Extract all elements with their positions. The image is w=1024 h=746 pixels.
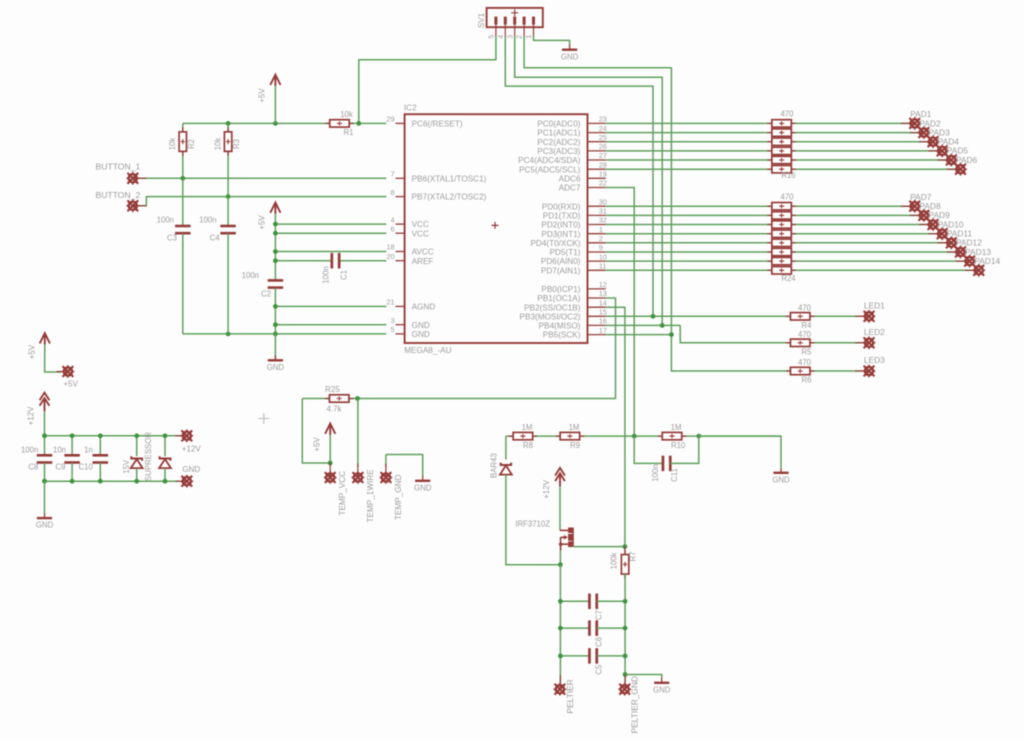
svg-text:MEGA8_-AU: MEGA8_-AU (404, 346, 451, 355)
IC2 pin 21 AGND (396, 305, 405, 307)
svg-text:1M: 1M (671, 423, 682, 432)
svg-text:100n: 100n (199, 215, 216, 224)
pad PAD2 (910, 132, 924, 134)
resistor R2 10k (182, 123, 184, 178)
wire MOSFET gate to R7 node (573, 546, 625, 548)
svg-text:IRF3710Z: IRF3710Z (515, 520, 550, 529)
resistor R16.5 470 (767, 159, 795, 161)
wire SV1 pin1 to GND (534, 37, 570, 46)
wire BAR43 to PELTIER node (506, 475, 561, 565)
svg-text:PD3(INT1): PD3(INT1) (541, 230, 580, 239)
svg-text:1n: 1n (84, 445, 93, 454)
svg-text:C4: C4 (210, 233, 221, 242)
node R3 top junction (226, 121, 231, 126)
IC2 pin 24 PC1(ADC1) (588, 132, 606, 134)
node R10 right junction (696, 434, 701, 439)
svg-text:11: 11 (599, 262, 607, 271)
wire ADC7 down to divider (606, 188, 634, 437)
wire R7 down to PELTIER_GND node (624, 574, 626, 683)
svg-text:1M: 1M (569, 423, 580, 432)
IC2 pin 11 PD7(AIN1) (588, 269, 606, 271)
svg-text:R24: R24 (781, 274, 796, 283)
capacitor C6 across peltier (560, 627, 589, 629)
svg-text:17: 17 (599, 326, 607, 335)
power +5V arrow upper (270, 75, 280, 87)
svg-text:C1: C1 (339, 270, 348, 280)
svg-text:R1: R1 (344, 128, 354, 137)
svg-text:R8: R8 (523, 441, 533, 450)
wire R10 to ground (699, 436, 781, 468)
svg-text:C7: C7 (595, 610, 604, 620)
svg-text:R16: R16 (781, 171, 795, 180)
IC2 pin 13 PB1(OC1A) (588, 297, 606, 299)
svg-text:PAD6: PAD6 (956, 155, 978, 165)
node R1 right junction (356, 121, 361, 126)
sheet origin cross (258, 413, 269, 424)
wire R25 left to TEMP_VCC (302, 399, 330, 464)
resistor R8 1M (509, 435, 537, 437)
IC2 pin 26 PC3(ADC3) (588, 150, 606, 152)
svg-text:1: 1 (524, 35, 533, 39)
svg-text:R7: R7 (629, 552, 638, 562)
wire R8 left to BAR43 (505, 436, 507, 459)
IC2 pin 17 PB5(SCK) (588, 334, 606, 336)
svg-text:LED3: LED3 (864, 355, 885, 365)
svg-text:26: 26 (599, 142, 607, 151)
svg-text:BUTTON_1: BUTTON_1 (96, 162, 141, 172)
IC2 pin 32 PD2(INT0) (588, 224, 606, 226)
wire PD7(AIN1) to PAD14 (606, 269, 979, 271)
svg-text:PD7(AIN1): PD7(AIN1) (541, 266, 581, 275)
node R3 bottom junction (226, 194, 231, 199)
pad +5V (57, 371, 68, 373)
svg-text:+5V: +5V (312, 437, 321, 452)
node gate junction (623, 544, 628, 549)
svg-text:C8: C8 (28, 463, 38, 472)
wire SV1 pin5 to R1/RESET node (359, 37, 496, 124)
resistor R6 470 (786, 370, 814, 372)
diode BAR43 (501, 463, 511, 465)
wire PB3 to LED1 (606, 315, 863, 317)
svg-text:28: 28 (599, 160, 607, 169)
svg-text:R25: R25 (325, 385, 340, 394)
svg-text:SUPRESSOR: SUPRESSOR (144, 432, 153, 481)
SV1 pin 3 contact (513, 17, 516, 25)
node SV1pin2/PB5 junction (669, 332, 674, 337)
wire SV1 pin2 to PB5 node (524, 37, 671, 335)
pad PAD7 (901, 205, 915, 207)
svg-text:PD1(TXD): PD1(TXD) (543, 212, 581, 221)
wire divider row R8 R9 R10 (506, 435, 781, 437)
pad PAD11 (937, 242, 951, 244)
IC2 origin cross (492, 222, 499, 229)
svg-text:1M: 1M (522, 423, 533, 432)
resistor R24.3 470 (767, 224, 795, 226)
wire PD6(AIN0) to PAD13 (606, 260, 970, 262)
resistor R24.1 470 (767, 205, 795, 207)
power +12V arrow (40, 393, 50, 412)
IC2 pin 15 PB3(MOSI/OC2) (588, 315, 606, 317)
ground at peltier (661, 678, 663, 683)
svg-text:4: 4 (496, 35, 505, 39)
wire AREF pin20 with C1 (275, 260, 331, 262)
pad PAD6 (947, 168, 961, 170)
svg-text:PAD14: PAD14 (974, 256, 1000, 266)
wire PB2 down to MOSFET gate (606, 307, 625, 546)
resistor R24.6 470 (767, 251, 795, 253)
node peltier gnd junction (623, 672, 628, 677)
svg-text:AVCC: AVCC (412, 248, 434, 257)
svg-text:R5: R5 (802, 347, 813, 356)
node +5V stem junction (273, 121, 278, 126)
svg-text:1: 1 (599, 225, 603, 234)
svg-text:PELTIER_GND: PELTIER_GND (630, 676, 640, 734)
svg-text:C2: C2 (261, 290, 271, 299)
wire SV1 pin4 to PB3 node (505, 37, 653, 317)
pad LED2 (855, 342, 869, 344)
svg-text:2: 2 (515, 35, 524, 39)
wire PD2(INT0) to PAD9 (606, 224, 933, 226)
svg-text:10k: 10k (168, 138, 177, 151)
capacitor C1 100n (331, 253, 334, 269)
resistor R16.6 470 (767, 168, 795, 170)
IC2 pin 18 AVCC (396, 251, 405, 253)
resistor R1 10k (325, 122, 353, 124)
resistor R10 1M (658, 435, 686, 437)
node TEMP_VCC junction (328, 461, 333, 466)
SV1 pin 5 contact (494, 17, 497, 25)
svg-text:27: 27 (599, 151, 607, 160)
svg-text:18: 18 (386, 243, 394, 252)
pad PELTIER_GND (624, 675, 626, 689)
svg-text:PD0(RXD): PD0(RXD) (542, 202, 581, 211)
resistor R7 100k (624, 547, 626, 579)
svg-text:10n: 10n (53, 445, 66, 454)
resistor R5 470 (786, 342, 814, 344)
capacitor C11 100n (634, 436, 663, 463)
svg-text:5: 5 (487, 35, 496, 39)
wire AGND pin21 (275, 305, 386, 307)
svg-text:SV1: SV1 (477, 12, 486, 28)
svg-text:13: 13 (599, 289, 607, 298)
pad PAD8 (910, 214, 924, 216)
connector SV1 body (487, 8, 543, 27)
wire PB5 to LED3 (606, 334, 672, 336)
svg-text:PB4(MISO): PB4(MISO) (539, 322, 581, 331)
svg-text:100n: 100n (157, 215, 174, 224)
pad PAD12 (947, 251, 961, 253)
svg-text:14: 14 (599, 298, 607, 307)
svg-text:+5V: +5V (258, 88, 267, 103)
IC2 pin 9 PD5(T1) (588, 251, 606, 253)
svg-text:10k: 10k (214, 138, 223, 151)
svg-text:470: 470 (798, 358, 812, 367)
resistor R24.7 470 (767, 260, 795, 262)
IC2 pin 10 PD6(AIN0) (588, 260, 606, 262)
svg-text:3: 3 (505, 35, 514, 39)
wire BUTTON_1 to PB6 (133, 177, 386, 179)
wire PC2(ADC2) to PAD3 (606, 141, 933, 143)
svg-text:PB5(SCK): PB5(SCK) (543, 331, 581, 340)
svg-text:470: 470 (798, 303, 812, 312)
wire PD4(T0/XCK) to PAD11 (606, 242, 952, 244)
svg-text:GND: GND (653, 685, 671, 694)
svg-text:LED2: LED2 (864, 327, 885, 337)
pad TEMP_VCC (329, 463, 331, 478)
svg-text:470: 470 (780, 110, 794, 119)
svg-text:AGND: AGND (412, 303, 436, 312)
svg-text:C9: C9 (56, 463, 66, 472)
IC IC2 MEGA8_-AU body (405, 114, 588, 343)
svg-text:R6: R6 (802, 376, 812, 385)
IC2 pin 23 PC0(ADC0) (588, 122, 606, 124)
svg-text:16: 16 (599, 317, 607, 326)
svg-text:GND: GND (412, 321, 430, 330)
svg-text:100n: 100n (242, 271, 259, 280)
svg-text:PD5(T1): PD5(T1) (550, 248, 581, 257)
svg-text:15V: 15V (122, 459, 131, 474)
SV1 origin cross (511, 9, 518, 16)
wire +12V rail (45, 435, 181, 437)
SV1 pin 1 contact (532, 17, 535, 25)
pad PAD9 (919, 224, 933, 226)
svg-text:+5V: +5V (27, 344, 36, 359)
svg-text:C6: C6 (595, 637, 604, 647)
svg-text:100n: 100n (21, 445, 38, 454)
wire PB1 down to R25 1-wire (358, 298, 616, 399)
wire TEMP_GND to ground (386, 455, 423, 477)
IC2 pin 3 GND (396, 324, 405, 326)
svg-text:GND: GND (412, 330, 430, 339)
svg-text:+5V: +5V (63, 380, 78, 389)
pad BUTTON_2 (133, 205, 147, 207)
suppressor diode 15V right (164, 436, 166, 457)
IC2 pin 1 PD3(INT1) (588, 233, 606, 235)
pad PAD3 (919, 141, 933, 143)
svg-text:+12V: +12V (542, 479, 551, 499)
node R2 bottom junction (180, 176, 185, 181)
IC2 pin 4 VCC (396, 223, 405, 225)
IC2 pin 8 PB7(XTAL2/TOSC2) (396, 196, 405, 198)
svg-text:4: 4 (390, 215, 394, 224)
power +5V arrow lower-left (40, 333, 50, 345)
svg-text:20: 20 (386, 252, 394, 261)
ground at TEMP_GND (422, 476, 424, 481)
resistor R16.4 470 (767, 150, 795, 152)
svg-text:R4: R4 (802, 321, 813, 330)
svg-text:TEMP_1WIRE: TEMP_1WIRE (366, 469, 375, 523)
wire PC1(ADC1) to PAD2 (606, 132, 924, 134)
IC2 pin 30 PD0(RXD) (588, 205, 606, 207)
svg-text:AREF: AREF (412, 257, 434, 266)
IC2 pin 19 ADC6 (588, 177, 606, 179)
svg-text:10: 10 (599, 252, 607, 261)
capacitor C10 1n (99, 436, 101, 455)
svg-text:ADC6: ADC6 (559, 174, 581, 183)
SV1 pin 2 contact (523, 17, 526, 25)
svg-text:PB3(MOSI/OC2): PB3(MOSI/OC2) (520, 312, 581, 321)
svg-text:PC4(ADC4/SDA): PC4(ADC4/SDA) (518, 156, 581, 165)
svg-text:VCC: VCC (412, 220, 429, 229)
capacitor C5 across peltier (560, 655, 589, 657)
power +5V arrow at VCC (270, 203, 280, 215)
svg-text:PC1(ADC1): PC1(ADC1) (537, 129, 580, 138)
wire AVCC pin18 (275, 251, 386, 253)
pad LED3 (855, 370, 869, 372)
svg-text:PB6(XTAL1/TOSC1): PB6(XTAL1/TOSC1) (412, 174, 487, 183)
resistor R3 10k (227, 123, 229, 196)
wire PD3(INT1) to PAD10 (606, 233, 942, 235)
pad +12V (175, 435, 186, 437)
svg-text:PELTIER: PELTIER (565, 679, 575, 713)
node ADC7 junction on divider (632, 434, 637, 439)
ground lower-left (44, 513, 46, 518)
IC2 pin 25 PC2(ADC2) (588, 141, 606, 143)
svg-text:PC2(ADC2): PC2(ADC2) (537, 138, 580, 147)
svg-text:22: 22 (599, 179, 607, 188)
resistor R24.8 470 (767, 269, 795, 271)
svg-text:C5: C5 (595, 664, 604, 675)
svg-text:19: 19 (599, 170, 607, 179)
resistor R16.2 470 (767, 132, 795, 134)
node source/BAR43 junction (558, 562, 563, 567)
svg-text:PB0(ICP1): PB0(ICP1) (541, 285, 580, 294)
wire gnd rail lower (45, 480, 181, 482)
IC2 pin 5 GND (396, 333, 405, 335)
svg-text:100n: 100n (651, 464, 660, 481)
svg-text:32: 32 (599, 216, 607, 225)
svg-text:24: 24 (599, 124, 607, 133)
power +12V arrow at MOSFET (555, 468, 565, 487)
node SV1pin4/PB3 junction (651, 314, 656, 319)
capacitor C7 across peltier (560, 600, 589, 602)
pad TEMP_GND (385, 455, 387, 468)
pad PAD10 (928, 233, 942, 235)
pad LED1 (855, 315, 869, 317)
svg-text:12: 12 (599, 280, 607, 289)
suppressor diode 15V left (136, 436, 138, 457)
pad PAD5 (937, 159, 951, 161)
ground at R10 (780, 468, 782, 473)
svg-text:R10: R10 (671, 441, 686, 450)
capacitor C4 100n (227, 197, 229, 226)
svg-text:ADC7: ADC7 (559, 184, 581, 193)
IC2 pin 28 PC5(ADC5/SCL) (588, 168, 606, 170)
svg-text:21: 21 (386, 298, 394, 307)
wire MOSFET source down (559, 551, 561, 565)
svg-text:PC5(ADC5/SCL): PC5(ADC5/SCL) (519, 165, 581, 174)
wire PC3(ADC3) to PAD4 (606, 150, 942, 152)
capacitor C3 100n (182, 178, 184, 226)
svg-text:TEMP_GND: TEMP_GND (394, 474, 403, 520)
svg-text:+5V: +5V (258, 215, 267, 230)
resistor R16.3 470 (767, 141, 795, 143)
IC2 pin 14 PB2(SS/OC1B) (588, 306, 606, 308)
resistor R24.2 470 (767, 214, 795, 216)
ground below C2 (274, 334, 276, 360)
wire BUTTON_2 to PB7 (133, 197, 386, 206)
svg-text:4.7k: 4.7k (326, 404, 342, 413)
svg-text:PC3(ADC3): PC3(ADC3) (537, 147, 580, 156)
pad BUTTON_1 (133, 177, 147, 179)
svg-text:10k: 10k (340, 110, 353, 119)
svg-text:100n: 100n (321, 266, 330, 283)
wire GND pin3 (275, 324, 386, 326)
wire SV1 pin3 to PB4 node (515, 37, 663, 326)
svg-text:470: 470 (780, 192, 794, 201)
svg-text:GND: GND (772, 475, 790, 484)
svg-text:LED1: LED1 (864, 301, 885, 311)
svg-text:C3: C3 (167, 233, 177, 242)
node R25 right junction (355, 396, 360, 401)
SV1 pin 4 contact (504, 17, 507, 25)
wire PC4(ADC4/SDA) to PAD5 (606, 159, 952, 161)
svg-text:PB1(OC1A): PB1(OC1A) (537, 294, 580, 303)
svg-text:+12V: +12V (182, 444, 202, 453)
pad PAD1 (901, 122, 915, 124)
svg-text:PB2(SS/OC1B): PB2(SS/OC1B) (524, 303, 581, 312)
node SV1pin3/PB4 junction (660, 323, 665, 328)
IC2 pin 22 ADC7 (588, 187, 606, 189)
svg-text:6: 6 (390, 224, 394, 233)
svg-text:100k: 100k (610, 552, 619, 569)
svg-text:GND: GND (182, 465, 200, 474)
svg-text:PD4(T0/XCK): PD4(T0/XCK) (530, 239, 580, 248)
IC2 pin 29 PC6(/RESET) (396, 122, 405, 124)
capacitor C8 100n (44, 436, 46, 455)
svg-text:R3: R3 (232, 139, 241, 149)
wire PD1(TXD) to PAD8 (606, 214, 924, 216)
wire VCC pin4 (275, 223, 386, 225)
wire PELTIER node down (559, 565, 561, 683)
wire VCC pin6 (275, 232, 386, 234)
svg-text:15: 15 (599, 308, 607, 317)
svg-text:3: 3 (390, 316, 394, 325)
pad PAD4 (928, 150, 942, 152)
resistor R24.5 470 (767, 242, 795, 244)
svg-text:30: 30 (599, 197, 607, 206)
svg-text:7: 7 (390, 170, 394, 179)
wire GND pin5 rail (183, 333, 386, 335)
svg-text:R9: R9 (570, 441, 580, 450)
svg-text:PD2(INT0): PD2(INT0) (541, 221, 580, 230)
IC2 pin 31 PD1(TXD) (588, 214, 606, 216)
wire PC0(ADC0) to PAD1 (606, 122, 915, 124)
wire to ground lower-left (44, 481, 46, 513)
svg-text:IC2: IC2 (404, 104, 417, 113)
wire +5V rail to PC6/RESET (183, 122, 386, 124)
svg-text:29: 29 (386, 115, 394, 124)
svg-text:PD6(AIN0): PD6(AIN0) (541, 257, 581, 266)
pad PAD13 (956, 260, 970, 262)
svg-text:9: 9 (599, 243, 603, 252)
svg-text:C10: C10 (78, 463, 93, 472)
svg-text:GND: GND (561, 52, 579, 61)
wire PB4 to LED2 (606, 324, 680, 326)
svg-text:23: 23 (599, 115, 607, 124)
pad TEMP_1WIRE (357, 399, 359, 468)
svg-text:5: 5 (390, 325, 394, 334)
svg-text:2: 2 (599, 234, 603, 243)
resistor R24.4 470 (767, 233, 795, 235)
svg-text:PC6(/RESET): PC6(/RESET) (412, 120, 463, 129)
svg-text:25: 25 (599, 133, 607, 142)
svg-text:31: 31 (599, 207, 607, 216)
svg-text:GND: GND (36, 521, 54, 530)
capacitor C9 10n (71, 436, 73, 455)
wire to ground at peltier (625, 675, 662, 679)
svg-text:GND: GND (267, 363, 285, 372)
